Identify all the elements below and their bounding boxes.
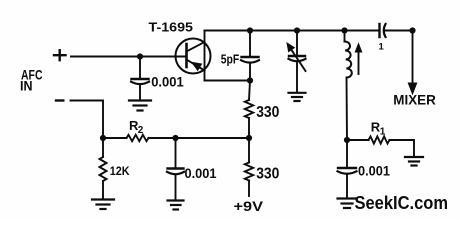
- wire top rail: [205, 30, 380, 32]
- capacitor C1 0.001: [131, 79, 149, 99]
- ground (right of R1): [405, 157, 423, 166]
- arrow to mixer: [408, 83, 416, 94]
- label AFC IN: [20, 67, 43, 94]
- transistor T-1695 (PNP): [176, 31, 211, 81]
- svg-text:+9V: +9V: [234, 199, 264, 214]
- node + (AFC IN plus terminal): [54, 50, 66, 60]
- node junction C3 top: [172, 135, 178, 141]
- ground (below varcap): [289, 93, 306, 101]
- node junction mid rail right: [246, 135, 252, 141]
- resistor R1: [347, 136, 414, 156]
- resistor 330 (lower): [245, 138, 253, 196]
- resistor 330 (upper): [245, 100, 253, 118]
- svg-text:T-1695: T-1695: [149, 20, 194, 35]
- label R1: [371, 120, 386, 138]
- node junction coil top: [341, 27, 347, 33]
- svg-text:1: 1: [379, 42, 385, 53]
- svg-text:SeekIC.com: SeekIC.com: [355, 192, 449, 213]
- node junction C1-top: [137, 53, 143, 59]
- svg-text:5pF: 5pF: [221, 51, 240, 66]
- node junction mid rail left: [100, 135, 106, 141]
- inductor L1 (tunable coil): [345, 31, 362, 141]
- ground (below C6): [338, 199, 357, 209]
- svg-text:0.001: 0.001: [151, 75, 184, 90]
- svg-text:2: 2: [138, 125, 144, 136]
- ground (below 12K): [92, 200, 114, 210]
- svg-text:IN: IN: [20, 78, 33, 94]
- wire C1 upper lead: [139, 57, 141, 78]
- node junction output corner: [409, 27, 415, 33]
- capacitor C5 1 (series): [380, 24, 413, 37]
- wire 330a lower lead: [248, 118, 250, 138]
- svg-text:0.001: 0.001: [358, 164, 390, 179]
- wire mid rail: [103, 137, 249, 139]
- svg-text:1: 1: [380, 126, 386, 137]
- wire emitter bottom: [205, 80, 251, 82]
- resistor 12K: [100, 138, 107, 199]
- variable capacitor C4: [287, 31, 306, 92]
- ground (below C3): [168, 201, 184, 210]
- svg-text:0.001: 0.001: [185, 166, 217, 181]
- svg-text:12K: 12K: [110, 164, 130, 178]
- wire 330a upper lead: [249, 81, 250, 101]
- capacitor C6 0.001: [338, 140, 357, 198]
- node junction varcap top: [294, 27, 300, 33]
- node junction 5pF bottom / emitter: [247, 77, 253, 83]
- label R2: [129, 118, 144, 136]
- wire base input: [71, 56, 186, 58]
- svg-text:330: 330: [256, 104, 279, 121]
- node junction R1/C6: [344, 137, 350, 143]
- svg-text:330: 330: [256, 166, 279, 183]
- node junction 5pF top: [247, 27, 253, 33]
- svg-text:MIXER: MIXER: [393, 92, 436, 108]
- capacitor C2 5pF: [241, 31, 259, 81]
- wire minus input: [71, 101, 104, 139]
- capacitor C3 0.001: [167, 138, 184, 200]
- node - (AFC IN minus terminal): [56, 99, 63, 101]
- wire mixer output: [412, 31, 414, 84]
- resistor R2: [127, 135, 149, 141]
- ground (below C1): [129, 101, 151, 111]
